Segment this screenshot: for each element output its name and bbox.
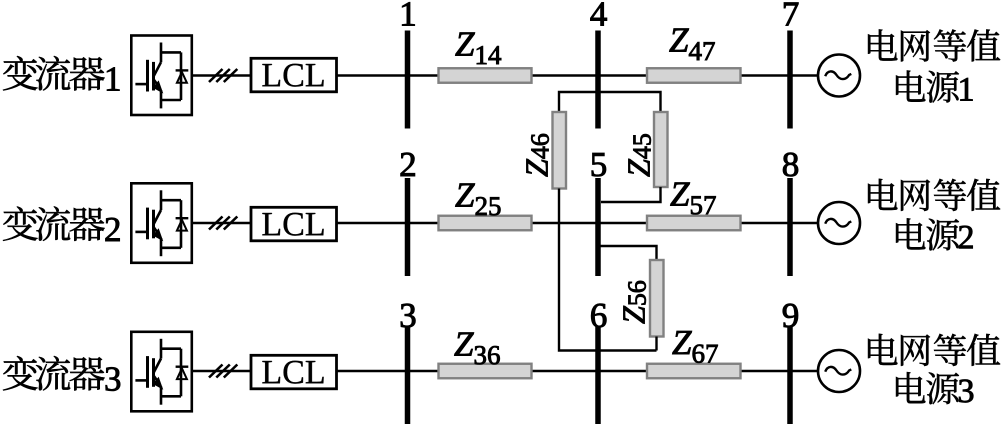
label Z56: [624, 281, 646, 324]
label Z14: [455, 33, 501, 64]
converter U2: [131, 183, 192, 262]
wire converter to LCL row 2: [192, 222, 250, 224]
slash marks row 2: [209, 217, 237, 230]
label Z57: [670, 183, 715, 215]
grid source label row 3 line 1: [868, 334, 1000, 366]
bus 2: [405, 178, 411, 276]
label Z67: [672, 331, 717, 363]
bus 5: [595, 178, 601, 276]
label Z36: [454, 333, 499, 365]
wire Z46 bottom to bus 6 jog: [559, 189, 657, 351]
grid source label row 2 line 1: [868, 179, 1000, 211]
impedance Z36: [439, 364, 532, 379]
bus number 2: [401, 153, 415, 176]
wire bus 6 row 3 horizontal: [532, 370, 648, 372]
LCL filter row 2: [251, 207, 337, 241]
converter U1: [131, 36, 192, 116]
bus number 7: [784, 3, 798, 26]
grid source label row 1 line 2: [896, 70, 972, 102]
label Z25: [455, 184, 500, 216]
bus 8: [787, 178, 793, 276]
bus 1: [405, 31, 411, 129]
converter U3: [131, 332, 192, 412]
grid source G2: [818, 202, 860, 244]
wire bus 5 to Z56 top: [599, 246, 657, 260]
bus 6: [595, 326, 601, 424]
wire converter to LCL row 1: [192, 74, 250, 76]
slash marks row 3: [209, 365, 237, 378]
label Z45: [629, 134, 651, 176]
bus number 4: [591, 3, 607, 26]
LCL filter row 1: [251, 58, 337, 92]
bus number 9: [783, 304, 798, 328]
bus 3: [405, 326, 411, 424]
wire converter to LCL row 3: [192, 370, 250, 372]
wire LCL to bus 2: [337, 222, 439, 224]
impedance Z45: [654, 112, 668, 187]
impedance Z67: [647, 364, 741, 379]
bus 4: [595, 31, 601, 129]
wire Z45 bottom to bus 5: [601, 187, 661, 202]
converter label text row 1: [3, 56, 119, 90]
bus 7: [787, 31, 793, 129]
bus number 1: [402, 2, 414, 25]
grid source label row 2 line 2: [896, 218, 973, 250]
bus number 3: [401, 304, 415, 328]
grid source label row 1 line 1: [868, 29, 1000, 61]
LCL filter row 3: [251, 355, 337, 389]
grid source label row 3 line 2: [896, 372, 973, 404]
slash marks row 1: [209, 69, 237, 82]
impedance Z25: [439, 216, 532, 231]
wire Z56 bottom to bus 6 jog: [655, 337, 657, 351]
bus number 8: [783, 153, 798, 177]
bus number 5: [592, 153, 606, 176]
wire LCL to bus 1: [337, 74, 439, 76]
impedance Z56: [650, 260, 664, 337]
grid source G3: [818, 350, 860, 392]
wire Z to bus 8 and source: [741, 222, 819, 224]
bus number 6: [591, 304, 606, 328]
wire bus 5 row 2 horizontal: [532, 222, 648, 224]
impedance Z57: [647, 216, 741, 231]
impedance Z14: [439, 68, 532, 83]
label Z47: [669, 29, 714, 60]
converter label text row 3: [3, 356, 120, 391]
wire bus 4 row 1 horizontal: [532, 74, 648, 76]
impedance Z47: [647, 68, 741, 83]
impedance Z46: [553, 112, 567, 189]
wire Z to bus 9 and source: [741, 370, 819, 372]
grid source G1: [818, 55, 860, 97]
wire bus 4 to tops of Z46 and Z45: [559, 92, 661, 112]
wire LCL to bus 3: [337, 370, 439, 372]
label Z46: [527, 134, 549, 177]
wire Z to bus 7 and source: [741, 74, 819, 76]
converter label text row 2: [3, 206, 120, 241]
bus 9: [787, 326, 793, 424]
